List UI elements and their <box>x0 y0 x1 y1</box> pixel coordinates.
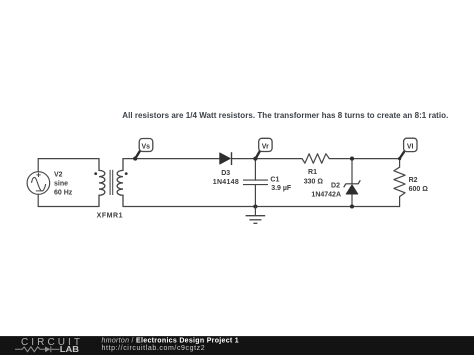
phase dot secondary <box>125 172 128 175</box>
label D2 value <box>311 182 341 198</box>
junction C1 bottom <box>253 204 257 208</box>
primary winding <box>99 159 105 207</box>
svg-text:60 Hz: 60 Hz <box>54 189 73 196</box>
label R2 value <box>409 177 429 193</box>
junction D2 bottom <box>350 204 354 208</box>
wire C1 top lead <box>254 159 256 181</box>
wire D2 top lead <box>351 159 353 184</box>
svg-text:D2: D2 <box>331 182 340 189</box>
phase dot primary <box>94 172 97 175</box>
label V2 value <box>54 171 73 196</box>
zener diode D2 <box>344 180 361 194</box>
wire bottom rail secondary <box>123 206 400 208</box>
junction node Vs <box>133 157 137 161</box>
wire top rail R1 to VI corner <box>329 158 399 160</box>
transformer XFMR1 <box>99 159 123 207</box>
svg-text:D3: D3 <box>221 170 230 177</box>
svg-text:600 Ω: 600 Ω <box>409 186 429 193</box>
secondary winding <box>117 159 123 207</box>
svg-text:C1: C1 <box>270 176 279 183</box>
svg-text:XFMR1: XFMR1 <box>97 213 123 220</box>
node flag Vr <box>256 138 272 158</box>
logo diode <box>45 347 50 353</box>
svg-text:R2: R2 <box>409 177 418 184</box>
diode D3 <box>220 152 232 165</box>
svg-text:Vs: Vs <box>142 143 151 150</box>
logo schematic line <box>15 346 60 352</box>
resistor R1 <box>302 154 329 163</box>
core lines <box>109 170 111 195</box>
svg-text:330 Ω: 330 Ω <box>304 179 324 186</box>
svg-text:1N4742A: 1N4742A <box>311 191 341 198</box>
label R1 value <box>304 169 324 185</box>
footer bar <box>0 336 474 355</box>
svg-text:sine: sine <box>54 180 68 187</box>
svg-text:hmorton / Electronics Design P: hmorton / Electronics Design Project 1 <box>102 338 239 345</box>
wire top rail secondary <box>123 158 220 160</box>
svg-text:R1: R1 <box>308 169 317 176</box>
svg-text:All resistors are 1/4 Watt res: All resistors are 1/4 Watt resistors. Th… <box>122 111 448 120</box>
svg-text:1N4148: 1N4148 <box>213 179 239 186</box>
wire V2 top lead <box>37 159 39 172</box>
label D3 value <box>213 170 239 186</box>
svg-text:VI: VI <box>407 143 414 150</box>
wire top rail D3 to R1 <box>232 158 302 160</box>
node flag VI <box>400 138 417 158</box>
wire D2 bottom lead <box>351 194 353 206</box>
junction node VI <box>398 157 401 160</box>
wire V2 bottom lead <box>37 194 39 206</box>
label C1 value <box>270 176 292 192</box>
node flag Vs <box>135 139 152 159</box>
wire R2 top lead <box>399 159 401 168</box>
ground <box>246 207 266 224</box>
wire R2 bottom lead <box>399 197 401 207</box>
svg-text:LAB: LAB <box>60 345 79 354</box>
svg-text:http://circuitlab.com/c9cgtz2: http://circuitlab.com/c9cgtz2 <box>102 345 206 352</box>
capacitor C1 <box>243 180 268 185</box>
wire bottom rail primary <box>38 206 99 208</box>
junction node Vr <box>253 157 257 161</box>
svg-text:3.9 µF: 3.9 µF <box>271 185 292 192</box>
wire top rail primary <box>38 158 99 160</box>
junction D2 top <box>350 157 354 161</box>
voltage source V2 <box>27 172 50 195</box>
svg-text:Vr: Vr <box>262 143 269 150</box>
svg-text:V2: V2 <box>54 171 63 178</box>
wire C1 bottom lead <box>254 185 256 207</box>
resistor R2 <box>394 167 405 196</box>
